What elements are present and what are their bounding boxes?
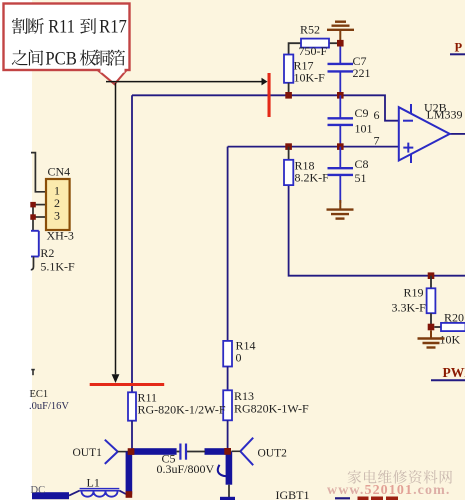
wire hook (gate lead curve) — [218, 465, 227, 477]
wire vertical left column down to R11 — [131, 95, 133, 392]
junction C9/C8 on pin7 net — [337, 143, 344, 150]
junction R18 top on pin7 net — [285, 143, 292, 150]
junction CN4 pin 3 — [30, 214, 36, 220]
annotation arrow vertical (points to cut mark near R11) — [115, 83, 117, 374]
red cut mark horizontal (above R11) — [90, 383, 165, 386]
svg-text:RG-820K-1/2W-F: RG-820K-1/2W-F — [138, 403, 226, 417]
wire R18 bottom L-shape to right edge — [289, 185, 465, 276]
ground (below R19) — [418, 330, 445, 347]
svg-text:0.3uF/800V: 0.3uF/800V — [157, 462, 215, 476]
capacitor C8 — [328, 147, 369, 203]
svg-text:3.3K-F: 3.3K-F — [392, 301, 427, 315]
red cut mark vertical (near R17) — [268, 73, 271, 117]
svg-text:221: 221 — [353, 66, 371, 80]
svg-text:EC1: EC1 — [30, 389, 49, 400]
wire pins 2-3 down to R2 — [32, 205, 34, 231]
svg-text:R2: R2 — [40, 246, 54, 260]
svg-text:R17: R17 — [99, 17, 127, 38]
connector CN4 XH-3 — [46, 165, 74, 243]
svg-text:R11: R11 — [48, 17, 75, 38]
capacitor C9 — [328, 95, 373, 146]
port OUT2 — [232, 438, 288, 466]
svg-text:R19: R19 — [404, 286, 424, 300]
svg-text:750-F: 750-F — [299, 44, 328, 58]
watermark chinese — [348, 470, 453, 484]
wire net R17-bottom horizontal (to op-amp pin 6) — [132, 95, 399, 120]
resistor R11 — [128, 391, 226, 449]
svg-text:CN4: CN4 — [48, 165, 71, 179]
bus OUT1 down to L1 — [126, 452, 133, 495]
bus OUT2 down — [226, 451, 233, 484]
inductor L1 — [69, 476, 126, 497]
wire op-amp output — [450, 133, 465, 135]
svg-text:P: P — [455, 41, 463, 55]
ground (top, inverted) — [327, 22, 354, 41]
svg-text:8.2K-F: 8.2K-F — [295, 171, 330, 185]
svg-text:OUT1: OUT1 — [73, 447, 103, 459]
svg-text:3: 3 — [54, 209, 60, 223]
white left band — [0, 0, 32, 500]
svg-text:51: 51 — [355, 171, 367, 185]
capacitor C7 — [328, 47, 371, 96]
wire middle column down to R14 — [227, 147, 229, 341]
wire CN4 pin 3 stub — [31, 216, 46, 218]
capacitor C5 — [157, 444, 215, 477]
svg-text:L1: L1 — [87, 476, 100, 490]
resistor R19 — [392, 276, 436, 327]
EC1 fragment (cut at image edge) — [29, 370, 69, 412]
junction R19 top — [428, 272, 435, 279]
svg-text:10K-F: 10K-F — [294, 71, 326, 85]
ground (below C8) — [327, 200, 354, 219]
bus C5 to OUT2 junction — [205, 448, 228, 455]
callout text line 2 — [12, 50, 28, 65]
svg-text:OUT2: OUT2 — [258, 448, 288, 460]
junction R17 bottom on net — [285, 92, 292, 99]
svg-text:XH-3: XH-3 — [47, 229, 74, 243]
resistor R17 — [284, 55, 325, 96]
IGBT1 collector stub (cut at bottom) — [335, 497, 350, 499]
svg-text:IGBT1: IGBT1 — [276, 488, 310, 500]
wire IGBT gate down — [228, 485, 230, 500]
wire to CN4 pin 1 — [31, 153, 46, 192]
callout box "cut PCB trace between R11 and R17" — [4, 4, 130, 71]
resistor R14 — [223, 339, 255, 391]
svg-text:DC: DC — [31, 485, 46, 496]
wire CN4 pin 2 stub — [31, 204, 46, 206]
resistor R13 — [223, 389, 309, 448]
callout text line 1 — [12, 18, 28, 34]
watermark second line fragment — [358, 497, 399, 500]
bus bottom left (DC rail) — [32, 492, 69, 499]
svg-text:6: 6 — [374, 108, 380, 122]
callout tail — [99, 71, 127, 84]
port P (top right) — [450, 41, 465, 55]
junction L1 / bus — [126, 491, 133, 498]
svg-text:101: 101 — [355, 122, 373, 136]
op-amp U2B LM339 — [399, 101, 463, 164]
svg-text:PWM: PWM — [443, 365, 465, 380]
junction OUT1 — [128, 448, 135, 455]
svg-text:7: 7 — [374, 134, 380, 148]
junction CN4 pin 2 — [30, 202, 36, 208]
svg-text:RG820K-1W-F: RG820K-1W-F — [234, 402, 309, 416]
svg-text:.0uF/16V: .0uF/16V — [29, 401, 69, 412]
port OUT1 — [73, 440, 129, 464]
svg-text:R52: R52 — [300, 23, 320, 37]
junction OUT2 — [224, 448, 231, 455]
svg-text:5.1K-F: 5.1K-F — [40, 260, 75, 274]
resistor R2 (half hidden by white crop) — [31, 231, 75, 274]
svg-text:0: 0 — [236, 351, 242, 365]
wire net pin7 horizontal — [228, 146, 399, 148]
svg-text:R20: R20 — [444, 311, 464, 325]
svg-text:www.520101.com.: www.520101.com. — [327, 483, 450, 498]
junction R19 bottom / R20 — [428, 324, 435, 331]
junction C7 bottom on net — [337, 92, 344, 99]
resistor R20 — [434, 311, 465, 347]
IGBT1 gate bar (cut at bottom) — [220, 497, 235, 500]
resistor R18 — [284, 147, 329, 186]
svg-text:C8: C8 — [355, 157, 369, 171]
port PWM — [431, 365, 465, 380]
resistor R52 — [289, 23, 338, 58]
bus OUT1 junction to C5 — [131, 448, 177, 455]
svg-text:LM339: LM339 — [427, 108, 463, 122]
svg-text:PCB: PCB — [45, 48, 77, 69]
annotation arrow horizontal (points to cut mark near R17) — [106, 81, 262, 83]
svg-text:C9: C9 — [355, 106, 369, 120]
junction top (R52/gnd/C7) — [337, 40, 344, 47]
